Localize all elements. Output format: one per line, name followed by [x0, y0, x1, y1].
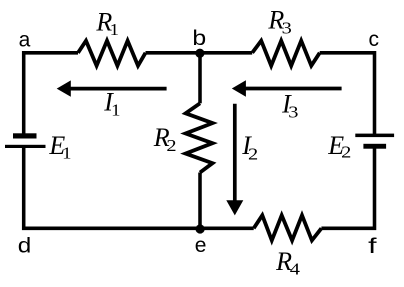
svg-text:b: b [192, 27, 206, 50]
svg-text:1: 1 [62, 144, 71, 163]
current arrow I3 shaft [243, 87, 342, 91]
svg-text:3: 3 [282, 19, 292, 38]
wire R1-b-R3 (through node b) [146, 51, 253, 55]
resistor R1 [78, 41, 146, 66]
svg-text:2: 2 [341, 143, 351, 162]
node b junction dot [195, 49, 204, 58]
svg-text:a: a [19, 29, 31, 52]
wire E2-f-R4 (right bottom corner at node f) [321, 146, 374, 229]
current arrow I2 head (pointing down) [226, 200, 243, 215]
battery E2 negative plate (short thick, bottom) [363, 144, 386, 149]
svg-text:2: 2 [248, 145, 258, 164]
svg-text:c: c [369, 28, 380, 51]
wire b-R2 (middle branch top) [198, 51, 202, 103]
current arrow I3 head (pointing left) [232, 80, 246, 96]
svg-text:4: 4 [290, 259, 301, 278]
wire R4-e-d-E1 (through node e, bottom left corner at node d) [24, 146, 254, 228]
battery E1 negative plate (short thick, top) [13, 133, 37, 138]
battery E1 positive plate (long thin, bottom) [5, 145, 46, 148]
svg-text:1: 1 [111, 101, 120, 120]
svg-text:d: d [18, 234, 32, 257]
resistor R2 [186, 103, 213, 172]
resistor R3 [252, 41, 320, 66]
svg-text:2: 2 [166, 136, 176, 155]
node e junction dot [196, 224, 205, 233]
svg-text:1: 1 [110, 20, 119, 39]
resistor R4 [254, 215, 322, 240]
battery E2 positive plate (long thin, top) [355, 134, 394, 138]
svg-text:3: 3 [288, 103, 298, 122]
current arrow I1 head (pointing left) [57, 80, 71, 96]
wire R3-c-E2 (right top corner at node c) [320, 53, 375, 136]
current arrow I1 shaft [68, 87, 167, 91]
svg-text:e: e [195, 234, 207, 257]
current arrow I2 shaft [233, 104, 237, 202]
wire E1-a-R1 (left top corner at node a) [24, 53, 78, 137]
wire R2-e (middle branch bottom) [198, 173, 202, 231]
svg-text:f: f [368, 235, 377, 258]
